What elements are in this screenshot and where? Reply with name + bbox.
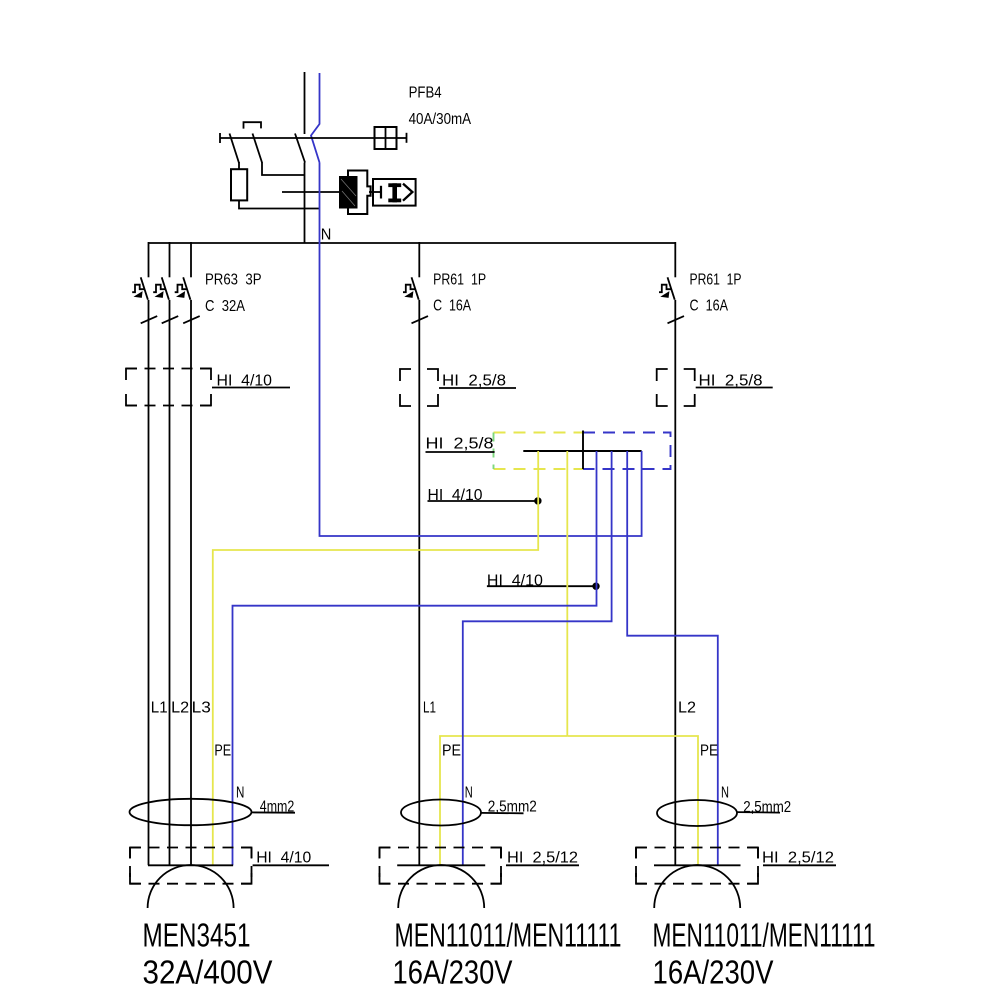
svg-text:C 32A: C 32A bbox=[205, 298, 245, 315]
svg-text:HI 2,5/12: HI 2,5/12 bbox=[507, 850, 578, 867]
svg-text:PR61 1P: PR61 1P bbox=[690, 271, 742, 288]
svg-text:L3: L3 bbox=[192, 699, 211, 716]
svg-text:4mm2: 4mm2 bbox=[260, 799, 295, 816]
conduit box HI 2,5/8 circuit3 bbox=[657, 369, 695, 406]
svg-text:PE: PE bbox=[700, 742, 718, 759]
wire CT primary bbox=[282, 191, 357, 193]
breaker Q1 pole3 bbox=[175, 277, 200, 323]
svg-text:40A/30mA: 40A/30mA bbox=[409, 111, 472, 128]
label line HI 4/10 with node dot on N outlet1 bbox=[487, 585, 593, 587]
conduit label line circuit1 bbox=[212, 387, 290, 389]
wire resistor bottom to neutral bbox=[239, 200, 320, 208]
green left edge of junction conduit box bbox=[493, 433, 495, 470]
RCD test button box bbox=[375, 127, 397, 149]
wire PE feeder outlets2+3 (yellow) bbox=[566, 451, 568, 736]
wire phase outlet3 lower bbox=[674, 300, 676, 865]
RCD sense coil outline bbox=[348, 171, 371, 215]
svg-text:32A/400V: 32A/400V bbox=[143, 955, 274, 992]
mechanism line right end tick bbox=[406, 133, 408, 143]
wire blade2 to phase line bbox=[262, 162, 305, 175]
svg-text:PE: PE bbox=[442, 742, 461, 759]
wire blade1 to test resistor bbox=[238, 162, 240, 169]
svg-text:MEN3451: MEN3451 bbox=[143, 918, 251, 955]
svg-text:16A/230V: 16A/230V bbox=[653, 955, 775, 992]
conduit label line outlet2 bbox=[506, 864, 579, 866]
wire N outlet2 (blue) bbox=[463, 451, 612, 865]
svg-text:PR63 3P: PR63 3P bbox=[205, 271, 262, 288]
cable label line 4mm2 bbox=[252, 811, 296, 813]
wire incoming phase bbox=[304, 72, 306, 134]
wire phase outlet3 upper bbox=[674, 242, 676, 277]
conduit box HI 4/10 circuit1 bbox=[126, 369, 211, 406]
svg-text:MEN11011/MEN11111: MEN11011/MEN11111 bbox=[395, 918, 622, 955]
label line HI 2,5/8 junction bbox=[426, 451, 495, 453]
junction terminal bar bbox=[523, 450, 641, 452]
svg-text:MEN11011/MEN11111: MEN11011/MEN11111 bbox=[653, 918, 876, 955]
wire PE outlet1 (yellow) bbox=[213, 451, 538, 865]
terminal line outlet3 bbox=[654, 864, 741, 866]
wire PE outlet3 (yellow) bbox=[567, 736, 698, 865]
breaker Q3 PR61 1P bbox=[659, 277, 684, 323]
cable label line 2,5mm2 outlet3 bbox=[737, 811, 780, 814]
RCD coupling bracket bbox=[244, 122, 262, 128]
junction box divider bbox=[582, 431, 584, 470]
socket arc outlet1 bbox=[148, 865, 234, 908]
svg-text:HI 4/10: HI 4/10 bbox=[487, 572, 543, 589]
svg-text:PFB4: PFB4 bbox=[409, 85, 442, 102]
svg-text:N: N bbox=[321, 227, 332, 244]
svg-text:N: N bbox=[721, 785, 729, 802]
svg-text:HI 2,5/12: HI 2,5/12 bbox=[762, 850, 834, 867]
svg-text:2,5mm2: 2,5mm2 bbox=[743, 799, 791, 816]
conduit box HI 2,5/8 at junction (yellow/green dashed) bbox=[494, 433, 584, 470]
wire L3 outlet1 upper bbox=[190, 242, 192, 277]
terminal line outlet2 bbox=[397, 864, 485, 866]
relay I> symbol bbox=[388, 183, 401, 187]
conduit label line circuit2 bbox=[439, 387, 516, 389]
wire phase below RCD to bus bbox=[304, 163, 306, 244]
conduit box HI 2,5/12 outlet2 (dashed) bbox=[380, 848, 502, 884]
cable marker ellipse outlet3 bbox=[657, 800, 737, 826]
RCD test resistor bbox=[231, 169, 247, 200]
svg-text:16A/230V: 16A/230V bbox=[393, 955, 514, 992]
svg-text:HI 2,5/8: HI 2,5/8 bbox=[442, 373, 506, 390]
conduit box HI 2,5/8 circuit2 bbox=[400, 369, 438, 406]
cable marker ellipse outlet2 bbox=[401, 800, 481, 826]
svg-text:C 16A: C 16A bbox=[690, 298, 729, 315]
conduit label line outlet1 bbox=[253, 864, 329, 866]
conduit box HI 2,5/12 outlet3 (dashed) bbox=[636, 848, 758, 884]
wire incoming neutral (blue) bbox=[311, 73, 320, 163]
wire L1 outlet1 upper bbox=[148, 242, 150, 277]
svg-text:L1: L1 bbox=[423, 699, 436, 716]
wire N outlet3 (blue) bbox=[627, 451, 718, 865]
wire coil to relay bbox=[369, 191, 381, 193]
svg-text:PR61 1P: PR61 1P bbox=[433, 271, 486, 288]
RCD pole blade 3 (phase) bbox=[295, 134, 305, 163]
svg-text:HI 4/10: HI 4/10 bbox=[428, 487, 483, 504]
socket arc outlet3 bbox=[654, 865, 740, 908]
wire neutral riser from RCD to junction (blue) bbox=[320, 163, 642, 537]
wire L2 outlet1 lower bbox=[169, 300, 171, 865]
cable marker ellipse outlet1 bbox=[130, 799, 252, 825]
svg-text:HI 2,5/8: HI 2,5/8 bbox=[426, 436, 494, 453]
svg-text:2,5mm2: 2,5mm2 bbox=[488, 799, 537, 816]
RCD current transformer core bbox=[339, 176, 358, 209]
conduit box HI 4/10 outlet1 (dashed) bbox=[130, 848, 252, 884]
svg-text:PE: PE bbox=[214, 742, 231, 759]
label line HI 4/10 with node dot on PE outlet1 bbox=[428, 500, 535, 502]
terminal line outlet1 bbox=[148, 864, 233, 866]
breaker Q1 pole2 bbox=[153, 277, 178, 323]
wire phase outlet2 lower bbox=[418, 300, 420, 865]
RCD pole blade 2 bbox=[253, 134, 263, 163]
breaker Q2 PR61 1P bbox=[403, 277, 428, 323]
svg-text:L2: L2 bbox=[678, 699, 696, 716]
wire phase outlet2 upper bbox=[418, 242, 420, 277]
svg-text:HI 4/10: HI 4/10 bbox=[217, 373, 273, 390]
svg-text:L1: L1 bbox=[151, 699, 168, 716]
mechanism line left end tick bbox=[219, 133, 221, 143]
wire N outlet1 (blue) bbox=[233, 451, 597, 865]
wire PE outlet2 (yellow) bbox=[440, 736, 567, 865]
svg-text:N: N bbox=[236, 785, 244, 802]
svg-text:HI 2,5/8: HI 2,5/8 bbox=[699, 373, 763, 390]
wire L3 outlet1 lower bbox=[190, 300, 192, 865]
RCD trip relay box U1 bbox=[373, 179, 416, 206]
socket arc outlet2 bbox=[398, 865, 484, 908]
wire L1 outlet1 lower bbox=[148, 300, 150, 865]
conduit label line outlet3 bbox=[763, 864, 836, 866]
conduit label line circuit3 bbox=[696, 387, 773, 389]
RCD pole blade 1 bbox=[230, 134, 240, 164]
svg-text:L2: L2 bbox=[171, 699, 189, 716]
wire L2 outlet1 upper bbox=[169, 242, 171, 277]
bus bar bbox=[149, 242, 676, 244]
junction box (blue dashed) bbox=[583, 433, 671, 470]
breaker Q1 PR63 3P pole1 bbox=[132, 277, 157, 323]
svg-text:N: N bbox=[465, 785, 473, 802]
cable label line 2,5mm2 outlet2 bbox=[481, 812, 524, 814]
svg-text:C 16A: C 16A bbox=[433, 298, 471, 315]
RCD PFB4 mechanism line bbox=[220, 137, 375, 139]
svg-text:HI 4/10: HI 4/10 bbox=[256, 850, 311, 867]
